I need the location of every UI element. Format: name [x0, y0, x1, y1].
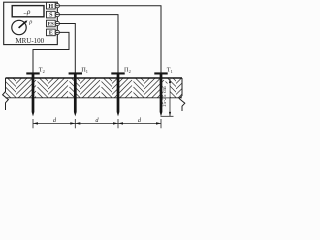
svg-text:MRU-100: MRU-100	[15, 37, 44, 45]
svg-text:d: d	[138, 117, 142, 124]
svg-text:T1: T1	[167, 67, 173, 74]
svg-text:H: H	[48, 4, 53, 10]
svg-text:d: d	[95, 117, 99, 124]
svg-text:Π1: Π1	[81, 67, 88, 74]
svg-text:T2: T2	[39, 67, 45, 74]
svg-text:Π2: Π2	[124, 67, 131, 74]
svg-text:ES: ES	[48, 22, 54, 27]
svg-text:..ρ: ..ρ	[23, 7, 31, 16]
svg-text:ρ: ρ	[28, 18, 32, 25]
svg-text:E: E	[49, 31, 53, 37]
svg-text:15-25 cm: 15-25 cm	[162, 86, 168, 108]
svg-text:d: d	[53, 117, 57, 124]
